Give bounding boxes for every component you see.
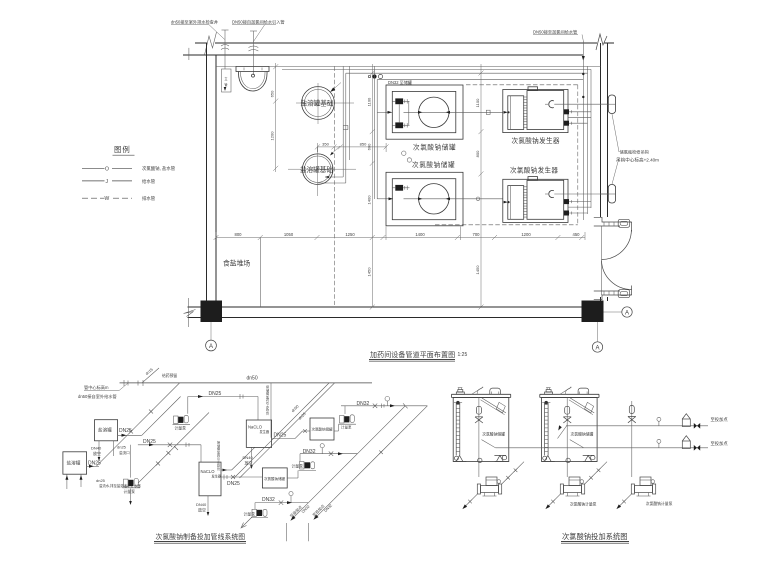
svg-text:储氯瓶检修吊钩: 储氯瓶检修吊钩 (620, 149, 649, 156)
label pump PM2 (570, 502, 597, 507)
label pump PM3 (646, 501, 673, 506)
PM1 suction diag (462, 494, 477, 509)
interior pipe O second (282, 68, 591, 70)
wall break bottom-left (184, 298, 217, 327)
svg-text:盐溶罐: 盐溶罐 (98, 427, 112, 434)
dosing main diagonal left (287, 406, 406, 542)
svg-text:1450: 1450 (366, 267, 371, 277)
text to dosing point 1 (711, 416, 729, 423)
svg-text:至投加点: 至投加点 (711, 440, 729, 447)
svg-text:dn50: dn50 (247, 375, 258, 381)
svg-text:次氯酸钠储罐: 次氯酸钠储罐 (264, 476, 285, 481)
PM3 suction diag (616, 494, 631, 509)
svg-text:A: A (625, 310, 629, 316)
dosing main diagonal right (309, 406, 428, 542)
svg-text:溢流水,排至盐溶池中补水器: 溢流水,排至盐溶池中补水器 (99, 483, 141, 488)
svg-text:650: 650 (270, 90, 275, 97)
column C1 (201, 301, 223, 323)
svg-text:800: 800 (475, 150, 480, 157)
svg-text:次氯酸钠投加系统图: 次氯酸钠投加系统图 (562, 532, 628, 541)
pump PM2 (560, 477, 584, 496)
tank T2 sodium hypochlorite storage (plan) (386, 172, 503, 226)
fitting circle on tank2 feed line (476, 197, 480, 201)
generator G1 sodium hypochlorite (plan) (503, 90, 609, 133)
salt tank box B2 (63, 452, 87, 474)
svg-text:次氯酸钠制备投加管线系统图: 次氯酸钠制备投加管线系统图 (156, 532, 246, 541)
pipe DN25 no2 (138, 439, 201, 462)
pump PM1 (477, 477, 501, 496)
wall bottom (200, 307, 601, 318)
gauge on DN32 no2 (320, 444, 324, 454)
svg-text:计量泵: 计量泵 (175, 426, 187, 431)
door threshold upper (594, 217, 632, 231)
gauge header1 (657, 417, 661, 426)
svg-text:1400: 1400 (415, 232, 425, 237)
svg-text:加药间设备管道平面布置图: 加药间设备管道平面布置图 (370, 350, 455, 359)
svg-text:1100: 1100 (475, 98, 480, 107)
svg-text:1050: 1050 (284, 232, 294, 237)
wall top inner (183, 48, 583, 60)
drain dashed vertical W (333, 66, 335, 305)
dosing header lower (496, 447, 709, 449)
pump P2 metering (123, 445, 141, 505)
pulsation damper header2 (682, 436, 690, 449)
text salt storage area (223, 259, 250, 268)
svg-text:计量泵: 计量泵 (341, 425, 352, 430)
leader hoist hook note (612, 114, 659, 185)
leader into circle1 (330, 83, 341, 93)
dim extension lines tanks (386, 227, 461, 241)
PM2 suction diag (545, 494, 560, 509)
svg-text:放空: 放空 (198, 507, 206, 513)
diag hose to NaCLO2 (138, 413, 209, 484)
wall top outer (195, 42, 614, 44)
pump P1 metering (173, 397, 191, 431)
label salt tank 2 (300, 165, 333, 174)
svg-text:放空: 放空 (93, 450, 101, 456)
svg-text:管: 管 (224, 82, 227, 87)
svg-text:1200: 1200 (270, 131, 275, 141)
B1 overflow dn25 (114, 441, 131, 456)
svg-text:DN32: DN32 (303, 449, 316, 455)
svg-text:1100: 1100 (366, 97, 371, 106)
interior pipe fourth DN32 run (377, 79, 583, 81)
washbasin (236, 66, 269, 91)
diag supply to salt tank 2 (96, 383, 179, 466)
svg-text:600: 600 (366, 143, 371, 150)
label to dosing point left (289, 504, 311, 518)
svg-text:1200: 1200 (521, 232, 531, 237)
svg-text:DN25: DN25 (227, 481, 240, 487)
interior pipe J along top wall (216, 65, 601, 67)
svg-text:发生器: 发生器 (260, 429, 270, 434)
pipe riser to tanks (375, 66, 378, 199)
legend row O hypochlorite/brine pipe (82, 165, 176, 172)
svg-text:1400: 1400 (366, 195, 371, 205)
svg-text:350: 350 (322, 141, 329, 146)
column C2 (582, 301, 604, 323)
generator G1 terminal box (528, 87, 572, 125)
plan title (369, 350, 467, 361)
svg-text:次氯酸钠计量泵: 次氯酸钠计量泵 (646, 501, 673, 506)
S1 to pump P3 (334, 406, 356, 431)
svg-text:给药预留: 给药预留 (162, 373, 177, 378)
small fittings below tank1 (402, 151, 412, 162)
dosing header upper (566, 425, 708, 427)
pipe DN32 no3 (255, 497, 308, 509)
svg-text:至投加点: 至投加点 (711, 416, 729, 423)
svg-text:发生器: 发生器 (212, 474, 222, 479)
door threshold lower (594, 286, 632, 300)
svg-text:溢流口: 溢流口 (119, 450, 130, 455)
B2 outlet DN25 (87, 461, 101, 468)
svg-text:次氯酸钠储罐: 次氯酸钠储罐 (312, 427, 333, 432)
svg-text:管: 管 (217, 466, 220, 471)
svg-text:次氯酸钠储罐: 次氯酸钠储罐 (571, 432, 594, 437)
svg-text:次氯酸钠发生器: 次氯酸钠发生器 (512, 136, 560, 145)
dim line vertical mid 1100/600/1400/1450 (366, 64, 375, 310)
PM1 discharge diag (502, 462, 524, 484)
svg-text:1:25: 1:25 (458, 352, 468, 358)
svg-text:次氯酸钠储罐: 次氯酸钠储罐 (482, 432, 505, 437)
svg-text:800: 800 (235, 232, 243, 237)
pulsation damper header1 (682, 414, 690, 427)
gauge on DN32 no3 (289, 492, 293, 503)
text pipe centre elevation note (78, 383, 128, 400)
valve pair node top (368, 74, 382, 78)
N2 drain DN40 (196, 496, 209, 516)
wall hook capsule 2 (601, 185, 617, 204)
generator G2 terminal box (528, 177, 572, 215)
title system diagram 1 (154, 532, 246, 543)
svg-text:盐溶罐基础: 盐溶罐基础 (300, 165, 333, 174)
svg-text:DN32 至储罐: DN32 至储罐 (388, 79, 412, 85)
legend row W drain pipe (82, 195, 156, 202)
N1 drain DN40 (243, 447, 254, 469)
text DN32 to storage tank (386, 79, 430, 85)
tank TK2 (system diagram) (540, 387, 599, 463)
valve header2 (694, 445, 700, 451)
svg-text:850: 850 (360, 141, 367, 146)
svg-text:图例: 图例 (114, 145, 131, 154)
wall break top-right (596, 34, 607, 50)
svg-text:盐溶罐: 盐溶罐 (67, 460, 81, 467)
svg-text:O: O (105, 166, 109, 172)
pipe DN25 no1 (188, 391, 258, 420)
salt pipes bundle (318, 66, 350, 183)
legend row J water supply pipe (82, 178, 156, 185)
svg-text:管中心标高m: 管中心标高m (84, 384, 109, 391)
tank TK2 feed riser link (566, 423, 568, 477)
basin supply pipe (249, 31, 259, 75)
N2 vertical note hose (217, 440, 221, 471)
svg-text:DN40: DN40 (196, 502, 207, 507)
dim line bottom 800/1050/1250/1400/700/1200/450 (214, 232, 586, 240)
svg-text:1450: 1450 (475, 265, 480, 275)
label tank T1 (413, 142, 456, 151)
drain riser pipe dn50 (221, 30, 231, 92)
svg-text:DN25: DN25 (209, 391, 222, 397)
pump P4 metering (292, 462, 317, 471)
text dn50 to outdoor drain well (171, 19, 225, 40)
B1 drain DN40 (91, 441, 102, 461)
pipe DN32 no1 (341, 401, 427, 408)
svg-text:次氯酸钠发生器: 次氯酸钠发生器 (510, 166, 558, 175)
label generator G2 (510, 166, 558, 175)
B2 inlets (65, 474, 82, 489)
storage tank box S2 (262, 468, 287, 488)
NaCLO generator box N1 (246, 420, 271, 447)
svg-text:DN40: DN40 (243, 455, 254, 460)
svg-text:DN32: DN32 (357, 401, 370, 407)
salt tank foundation circle 2 (288, 147, 356, 196)
text DN50 from chlorination room water inlet (232, 19, 285, 42)
svg-text:次氯酸钠计量泵: 次氯酸钠计量泵 (570, 502, 597, 507)
N2 outlet to tank hose (221, 447, 255, 471)
svg-text:排水管: 排水管 (142, 195, 156, 202)
svg-text:450: 450 (573, 232, 581, 237)
title system diagram 2 (561, 532, 629, 543)
S2 to pump P4 (287, 471, 298, 479)
leader into circle2 (330, 146, 340, 156)
wall left (207, 43, 217, 301)
branch dn15 reserved (142, 367, 177, 382)
svg-text:700: 700 (473, 232, 481, 237)
svg-text:管: 管 (266, 410, 269, 415)
svg-text:DN40: DN40 (91, 446, 102, 451)
riser valve extra x632 (628, 401, 636, 477)
axis marker A bottom-right (592, 322, 602, 352)
tank TK1 (system diagram) (452, 387, 511, 463)
svg-text:DN32: DN32 (262, 497, 275, 503)
axis marker A right (604, 307, 633, 317)
diagonal main dn50/dn25 pair (234, 383, 335, 478)
svg-text:计量泵: 计量泵 (292, 464, 304, 469)
text DN50 to disinfection flush water (533, 28, 585, 61)
wall right (601, 43, 608, 301)
svg-text:A: A (209, 344, 213, 350)
PM2 discharge diag (585, 462, 607, 484)
tank TK1 feed riser link (478, 462, 480, 478)
salt tank foundation circle 1 (296, 83, 354, 124)
riser from dn50 to N1 (266, 383, 271, 438)
storage area boundary (259, 238, 261, 308)
generator G2 sodium hypochlorite (plan) (503, 179, 609, 222)
label tank T2 (412, 160, 455, 169)
svg-text:A: A (595, 345, 599, 351)
axis marker A bottom-left (206, 322, 217, 351)
pump P5 metering (244, 509, 269, 517)
svg-text:计量泵: 计量泵 (124, 489, 136, 494)
pipe risers right side (582, 58, 591, 220)
valve header1 (694, 423, 700, 429)
interior pipe third (346, 72, 588, 74)
gauge header2 (657, 439, 661, 448)
NaCLO generator box N2 (199, 462, 222, 496)
label generator G1 (512, 136, 560, 145)
crane rail dashed (435, 85, 578, 225)
suction arrow P5 (241, 517, 252, 528)
svg-text:NaCLO: NaCLO (248, 425, 263, 430)
svg-text:给水管: 给水管 (142, 178, 156, 185)
svg-text:盐溶罐基础: 盐溶罐基础 (301, 99, 334, 108)
header1 left diagonal stub (558, 425, 567, 438)
svg-text:dn50接自室外给水管: dn50接自室外给水管 (78, 393, 117, 400)
N1 DN25 outlet (272, 429, 310, 438)
wall hook capsule 1 (601, 95, 617, 114)
svg-text:食盐堆场: 食盐堆场 (223, 259, 250, 268)
svg-text:次氯酸钠储罐: 次氯酸钠储罐 (412, 160, 455, 169)
svg-text:次氯酸钠储罐: 次氯酸钠储罐 (413, 142, 456, 151)
svg-text:NaCLO: NaCLO (201, 469, 216, 474)
label salt tank 1 (301, 99, 334, 108)
feed line tank1 (377, 111, 392, 114)
fitting square on tank1 feed line (486, 110, 490, 114)
svg-text:吊钩中心标高+2.40m: 吊钩中心标高+2.40m (616, 157, 659, 164)
B2 overflow note (96, 478, 141, 488)
svg-text:dn25: dn25 (96, 478, 106, 483)
svg-text:次氯酸钠, 盐水管: 次氯酸钠, 盐水管 (142, 165, 176, 172)
pipe DN32 no2 (300, 449, 357, 461)
legend title (113, 145, 135, 155)
dim line vertical left 650/1200 (270, 63, 279, 172)
tank T1 sodium hypochlorite storage (plan) (386, 85, 503, 139)
dim line 350/850 (315, 141, 389, 152)
B1 outlet DN25 (118, 397, 181, 437)
storage tank box S1 (310, 418, 334, 440)
dim line vertical right 1100/800 (475, 64, 484, 310)
text dn50 label (247, 375, 258, 381)
door double swing (602, 226, 632, 295)
N2 DN25 line to tank box (221, 475, 262, 487)
wall break top-left (205, 32, 217, 55)
svg-text:计量泵: 计量泵 (244, 512, 256, 517)
gauge on DN32 no1 (385, 396, 390, 405)
pump PM3 (631, 477, 655, 496)
svg-text:DN25: DN25 (119, 428, 132, 434)
feed line tank2 (377, 197, 393, 200)
salt tank box B1 (95, 420, 118, 441)
svg-text:dn25: dn25 (117, 445, 127, 450)
svg-text:W: W (105, 196, 110, 202)
label to dosing point right (311, 503, 333, 517)
text to dosing point 2 (711, 440, 729, 447)
svg-text:1250: 1250 (345, 232, 355, 237)
pipe dn50 main horizontal (120, 380, 373, 386)
